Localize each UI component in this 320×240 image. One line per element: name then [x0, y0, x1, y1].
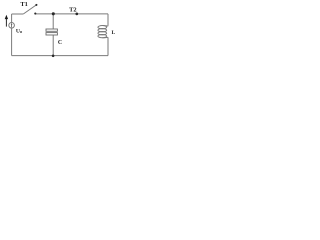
svg-text:T1: T1	[20, 1, 27, 8]
svg-text:T2: T2	[69, 6, 76, 13]
svg-text:Uo: Uo	[16, 28, 23, 34]
svg-text:C: C	[58, 40, 62, 46]
svg-text:L: L	[112, 30, 116, 36]
